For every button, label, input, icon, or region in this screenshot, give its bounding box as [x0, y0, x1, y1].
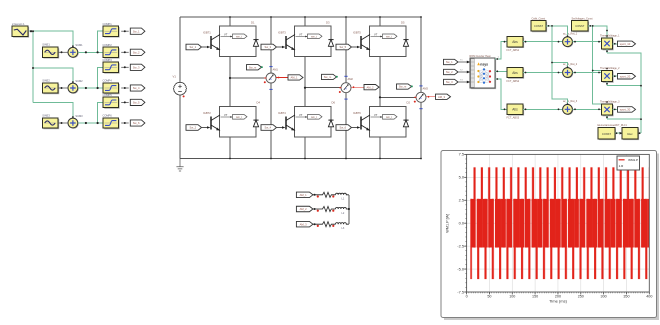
svg-text:D3: D3 [326, 21, 330, 25]
scope legend [617, 156, 640, 170]
svg-text:VT: VT [299, 113, 303, 117]
wire COMP6 output [121, 122, 129, 124]
wire ROM input 2 [458, 69, 470, 73]
svg-text:Sw_5: Sw_5 [133, 101, 140, 105]
svg-text:D2: D2 [407, 101, 411, 105]
from tag gate feed AM2 [322, 74, 337, 79]
svg-text:IGBT6: IGBT6 [353, 111, 361, 115]
svg-text:COMP4: COMP4 [103, 79, 113, 83]
sum junction ac_to_Rat_1 [563, 37, 574, 48]
wire sum to multiplier 1 [573, 41, 603, 43]
wire measurement branch leg1 [270, 17, 272, 159]
svg-text:350: 350 [623, 294, 629, 298]
svg-text:AM_3: AM_3 [300, 222, 308, 226]
abs block FCT_ABS1 [507, 37, 525, 53]
svg-text:AM2: AM2 [348, 77, 354, 81]
transistor cell IGBT5/D5 [336, 21, 409, 57]
svg-text:SINE2: SINE2 [42, 78, 50, 82]
sum junction SUM2 [68, 79, 83, 94]
svg-text:nsys: nsys [480, 62, 488, 66]
goto tag sport_1 [618, 41, 636, 47]
svg-text:Sw_6: Sw_6 [340, 126, 347, 130]
svg-text:sport_20: sport_20 [620, 74, 631, 78]
svg-text:IGBT4: IGBT4 [278, 111, 286, 115]
svg-text:Sw_m: Sw_m [399, 85, 407, 89]
wire Abs1 to sum [523, 41, 562, 43]
svg-text:IGBT5: IGBT5 [353, 31, 361, 35]
comparator block COMP2 [103, 43, 120, 59]
svg-text:150: 150 [532, 294, 538, 298]
wire leg3 vertical [379, 16, 422, 159]
svg-text:CONST: CONST [534, 24, 543, 28]
ground [176, 159, 183, 172]
wire COMP3 output [121, 66, 129, 68]
sum junction SUM1 [68, 43, 83, 58]
svg-text:AM3: AM3 [423, 87, 429, 91]
wire multiplier 2 output [613, 75, 618, 77]
wire Abs2 to sum [523, 72, 562, 74]
scope axis labels [446, 152, 653, 304]
scope grid [467, 154, 650, 292]
svg-text:Rec: Rec [627, 132, 633, 136]
wire sine1 to sum [58, 51, 68, 53]
svg-text:IGBT1: IGBT1 [203, 31, 211, 35]
svg-text:wm_t: wm_t [386, 116, 392, 119]
from tag ROM input 1 [444, 59, 459, 64]
svg-text:sport_10: sport_10 [620, 42, 631, 46]
wire COMP1 output [121, 30, 129, 32]
from tag load phase 1 [296, 192, 313, 198]
svg-text:1.R: 1.R [619, 164, 625, 168]
scope plot frame [467, 154, 650, 292]
svg-text:0: 0 [466, 294, 468, 298]
svg-text:2.GeneC.1: 2.GeneC.1 [12, 22, 25, 26]
wire RL star point [348, 195, 350, 224]
svg-text:Sw_3: Sw_3 [446, 80, 453, 84]
ammeter AM2 [336, 76, 354, 100]
svg-text:Abs: Abs [512, 40, 518, 44]
svg-text:Sw_5: Sw_5 [340, 45, 347, 49]
goto tag Sw5 [130, 99, 145, 105]
DC bus wires [180, 17, 421, 159]
svg-text:5.0: 5.0 [459, 175, 465, 180]
svg-text:A: A [270, 77, 272, 81]
from tag ROM input 3 [444, 79, 459, 84]
svg-text:ac_to_Rat_2: ac_to_Rat_2 [563, 63, 578, 66]
svg-text:VT: VT [224, 113, 228, 117]
svg-text:Abs: Abs [512, 108, 518, 112]
resistor R3 [313, 222, 336, 227]
svg-text:Calib_Const: Calib_Const [532, 17, 546, 20]
svg-text:ThermalVoltage_1: ThermalVoltage_1 [600, 34, 620, 37]
wire sum to multiplier 3 [573, 108, 603, 110]
sine source SINE3 [42, 113, 59, 129]
wire sine3 to sum [58, 122, 68, 124]
constant block Calor_Const [531, 17, 547, 32]
from tag load phase 2 [296, 206, 313, 212]
svg-text:sport_30: sport_30 [620, 108, 631, 112]
svg-text:7.5: 7.5 [459, 152, 464, 157]
goto tag sport_3 [618, 107, 636, 113]
sine source SINE1 [42, 43, 59, 59]
svg-text:SwVoltages_Const: SwVoltages_Const [572, 17, 593, 20]
svg-text:VT: VT [374, 32, 378, 36]
svg-text:wm_t: wm_t [386, 35, 392, 38]
svg-text:Sw_4: Sw_4 [133, 86, 140, 90]
abs block FCT_ABS2 [507, 67, 525, 83]
comparator block COMP1 [103, 22, 120, 38]
svg-text:ElementarLosses#CT_RLC1: ElementarLosses#CT_RLC1 [598, 124, 628, 127]
svg-text:FCT_ABS3: FCT_ABS3 [507, 117, 520, 120]
wire sine2 to sum [58, 87, 68, 89]
svg-text:WM1.P [W]: WM1.P [W] [446, 214, 450, 233]
svg-text:CONST: CONST [602, 132, 611, 136]
scope waveform trace WM1.P [470, 154, 649, 292]
svg-text:2.5: 2.5 [459, 198, 464, 203]
svg-text:Sw_m: Sw_m [249, 65, 257, 69]
svg-text:CONST: CONST [575, 24, 584, 28]
wire multiplier 1 output [613, 43, 618, 45]
transistor cell IGBT4/D6 [261, 101, 335, 137]
svg-text:0.0: 0.0 [459, 221, 465, 226]
svg-text:Sw_1: Sw_1 [190, 45, 197, 49]
from tag ROM input 2 [444, 69, 459, 74]
wire ROM outputs to Abs [495, 41, 507, 110]
svg-text:Sw_2: Sw_2 [190, 126, 197, 130]
sum junction ac_to_Rat_3 [563, 104, 574, 115]
wire ROM input 3 [458, 79, 470, 83]
wire AM2 signal out [351, 86, 364, 88]
wire sum1 to comparators [78, 31, 103, 53]
svg-text:VT: VT [299, 32, 303, 36]
wire Abs3 to sum [523, 108, 562, 110]
wire carrier distribution [28, 30, 74, 118]
goto tag phase current AM3 [436, 94, 451, 99]
wire phase3 to ammeter [379, 96, 416, 98]
triangle carrier source GEN1 [12, 22, 29, 38]
wire ROM input 1 [458, 59, 470, 63]
svg-text:ac_to_Rat_1: ac_to_Rat_1 [563, 32, 578, 35]
wire sum3 to comparators [78, 102, 103, 124]
svg-text:AM_3: AM_3 [438, 95, 446, 99]
abs block FCT_ABS3 [507, 104, 525, 120]
ammeter AM3 [411, 85, 429, 109]
goto tag Sw1 [130, 28, 145, 34]
svg-text:AM_2: AM_2 [366, 85, 374, 89]
wire phase2 to ammeter [304, 87, 341, 89]
svg-text:IGBT2: IGBT2 [203, 111, 211, 115]
svg-text:SUM3: SUM3 [75, 114, 83, 118]
svg-text:Abs: Abs [512, 71, 518, 75]
transistor cell IGBT2/D4 [186, 101, 260, 137]
svg-text:A: A [345, 87, 347, 91]
resistor R2 [313, 206, 336, 211]
wire COMP2 output [121, 51, 129, 53]
ammeter AM1 [261, 66, 279, 90]
goto tag Sw3 [130, 64, 145, 70]
svg-text:-2.5: -2.5 [457, 243, 464, 248]
svg-text:COMP3: COMP3 [103, 58, 113, 62]
svg-text:D6: D6 [332, 101, 336, 105]
wire sum2 to comparators [78, 67, 103, 89]
svg-text:A: A [420, 96, 422, 100]
svg-text:COMP6: COMP6 [103, 114, 113, 118]
svg-text:100: 100 [509, 294, 515, 298]
svg-text:ROM Inverter Heat: ROM Inverter Heat [470, 55, 491, 58]
svg-text:300: 300 [601, 294, 607, 298]
scope axis ticks [464, 154, 649, 294]
svg-text:AM_2: AM_2 [300, 207, 308, 211]
svg-text:Sw_4: Sw_4 [265, 126, 272, 130]
svg-text:FCT_ABS2: FCT_ABS2 [507, 80, 520, 83]
svg-text:VT: VT [224, 32, 228, 36]
wire phase1 to ammeter [229, 77, 266, 79]
comparator block COMP4 [103, 79, 120, 95]
svg-text:SINE3: SINE3 [42, 113, 50, 117]
goto tag Sw4 [130, 85, 145, 91]
svg-text:SINE1: SINE1 [42, 43, 50, 47]
comparator block COMP5 [103, 93, 120, 109]
svg-text:250: 250 [578, 294, 584, 298]
svg-text:Sw_m: Sw_m [324, 75, 332, 79]
goto tag sport_2 [618, 74, 636, 80]
sum junction ac_to_Rat_2 [563, 68, 574, 79]
svg-text:COMP5: COMP5 [103, 93, 113, 97]
svg-text:ThermalVoltage_2: ThermalVoltage_2 [600, 67, 620, 70]
svg-text:D4: D4 [257, 101, 261, 105]
wire COMP5 output [121, 101, 129, 103]
from tag load phase 3 [296, 221, 313, 227]
svg-text:SUM1: SUM1 [75, 43, 83, 47]
Ansys ROM block U1 [470, 55, 497, 89]
wire AM3 signal out [426, 96, 436, 98]
wire AM1 signal out [276, 77, 288, 79]
multiplier block ThermalVoltage_1 [600, 34, 620, 53]
comparator block COMP3 [103, 58, 120, 74]
inductor L1 [336, 193, 349, 200]
inductor L3 [336, 223, 349, 230]
wire sum to multiplier 2 [573, 72, 603, 74]
svg-text:D5: D5 [401, 21, 405, 25]
svg-text:-5.0: -5.0 [457, 266, 465, 271]
constant block CT_RLC1 [598, 124, 628, 140]
scope window WM1 [441, 151, 659, 321]
wire measurement branch leg3 [420, 17, 422, 159]
goto tag phase current AM2 [364, 85, 379, 90]
transistor cell IGBT1/D1 [186, 21, 259, 57]
goto tag Sw2 [130, 49, 145, 55]
from tag gate feed AM1 [247, 65, 262, 70]
wire leg1 vertical [229, 16, 272, 159]
svg-text:Sw_1: Sw_1 [446, 60, 453, 64]
svg-text:Sw_6: Sw_6 [133, 121, 140, 125]
svg-text:D1: D1 [251, 21, 255, 25]
svg-text:AM_1: AM_1 [300, 193, 308, 197]
sine source SINE2 [42, 78, 59, 94]
wire const2 to multiplier tops [588, 25, 608, 104]
svg-text:wm_t: wm_t [311, 116, 317, 119]
sum junction SUM3 [68, 114, 83, 129]
svg-text:Sw_2: Sw_2 [133, 50, 140, 54]
svg-text:400: 400 [646, 294, 652, 298]
multiplier block ThermalVoltage_2 [600, 67, 620, 86]
svg-text:wm_t: wm_t [311, 35, 317, 38]
wire leg2 vertical [304, 16, 347, 159]
svg-text:-7.5: -7.5 [457, 289, 464, 294]
svg-text:V1: V1 [173, 75, 177, 79]
svg-text:IGBT3: IGBT3 [278, 31, 286, 35]
inductor L2 [336, 207, 349, 214]
svg-text:COMP1: COMP1 [103, 22, 113, 26]
wire COMP4 output [121, 87, 129, 89]
transistor cell IGBT3/D3 [261, 21, 334, 57]
svg-text:wm_t: wm_t [236, 35, 242, 38]
svg-text:Sw_1: Sw_1 [133, 29, 140, 33]
multiplier block ThermalVoltage_3 [600, 100, 620, 119]
constant block SwVoltages_Const [572, 17, 593, 32]
goto tag phase current AM1 [288, 75, 303, 80]
svg-text:VT: VT [374, 113, 378, 117]
svg-text:ac_to_Rat_3: ac_to_Rat_3 [563, 100, 578, 103]
wire multiplier 3 output [613, 109, 618, 111]
comparator block COMP6 [103, 114, 120, 130]
svg-text:50: 50 [487, 294, 491, 298]
Rec block [622, 127, 640, 140]
wire measurement branch leg2 [345, 17, 347, 159]
svg-text:ThermalVoltage_3: ThermalVoltage_3 [600, 100, 620, 103]
svg-text:Sw_3: Sw_3 [133, 65, 140, 69]
svg-text:FCT_ABS1: FCT_ABS1 [507, 49, 520, 52]
svg-text:WM1.P: WM1.P [628, 158, 638, 162]
svg-text:Time (ms): Time (ms) [549, 299, 568, 304]
svg-text:wm_t: wm_t [236, 116, 242, 119]
from tag gate feed AM3 [397, 84, 412, 89]
svg-text:Sw_2: Sw_2 [446, 70, 453, 74]
svg-text:AM1: AM1 [273, 67, 279, 71]
svg-text:COMP2: COMP2 [103, 43, 113, 47]
goto tag Sw6 [130, 120, 145, 126]
wire const3 to Rec [615, 132, 623, 135]
svg-text:SUM2: SUM2 [75, 79, 83, 83]
resistor R1 [313, 192, 336, 197]
transistor cell IGBT6/D2 [336, 101, 410, 137]
wire multiplier bottoms to Rec [607, 53, 642, 133]
svg-text:Sw_3: Sw_3 [265, 45, 272, 49]
DC voltage source V1 [173, 75, 187, 98]
wire const to sum tops [546, 25, 568, 105]
svg-text:AM_1: AM_1 [290, 76, 298, 80]
